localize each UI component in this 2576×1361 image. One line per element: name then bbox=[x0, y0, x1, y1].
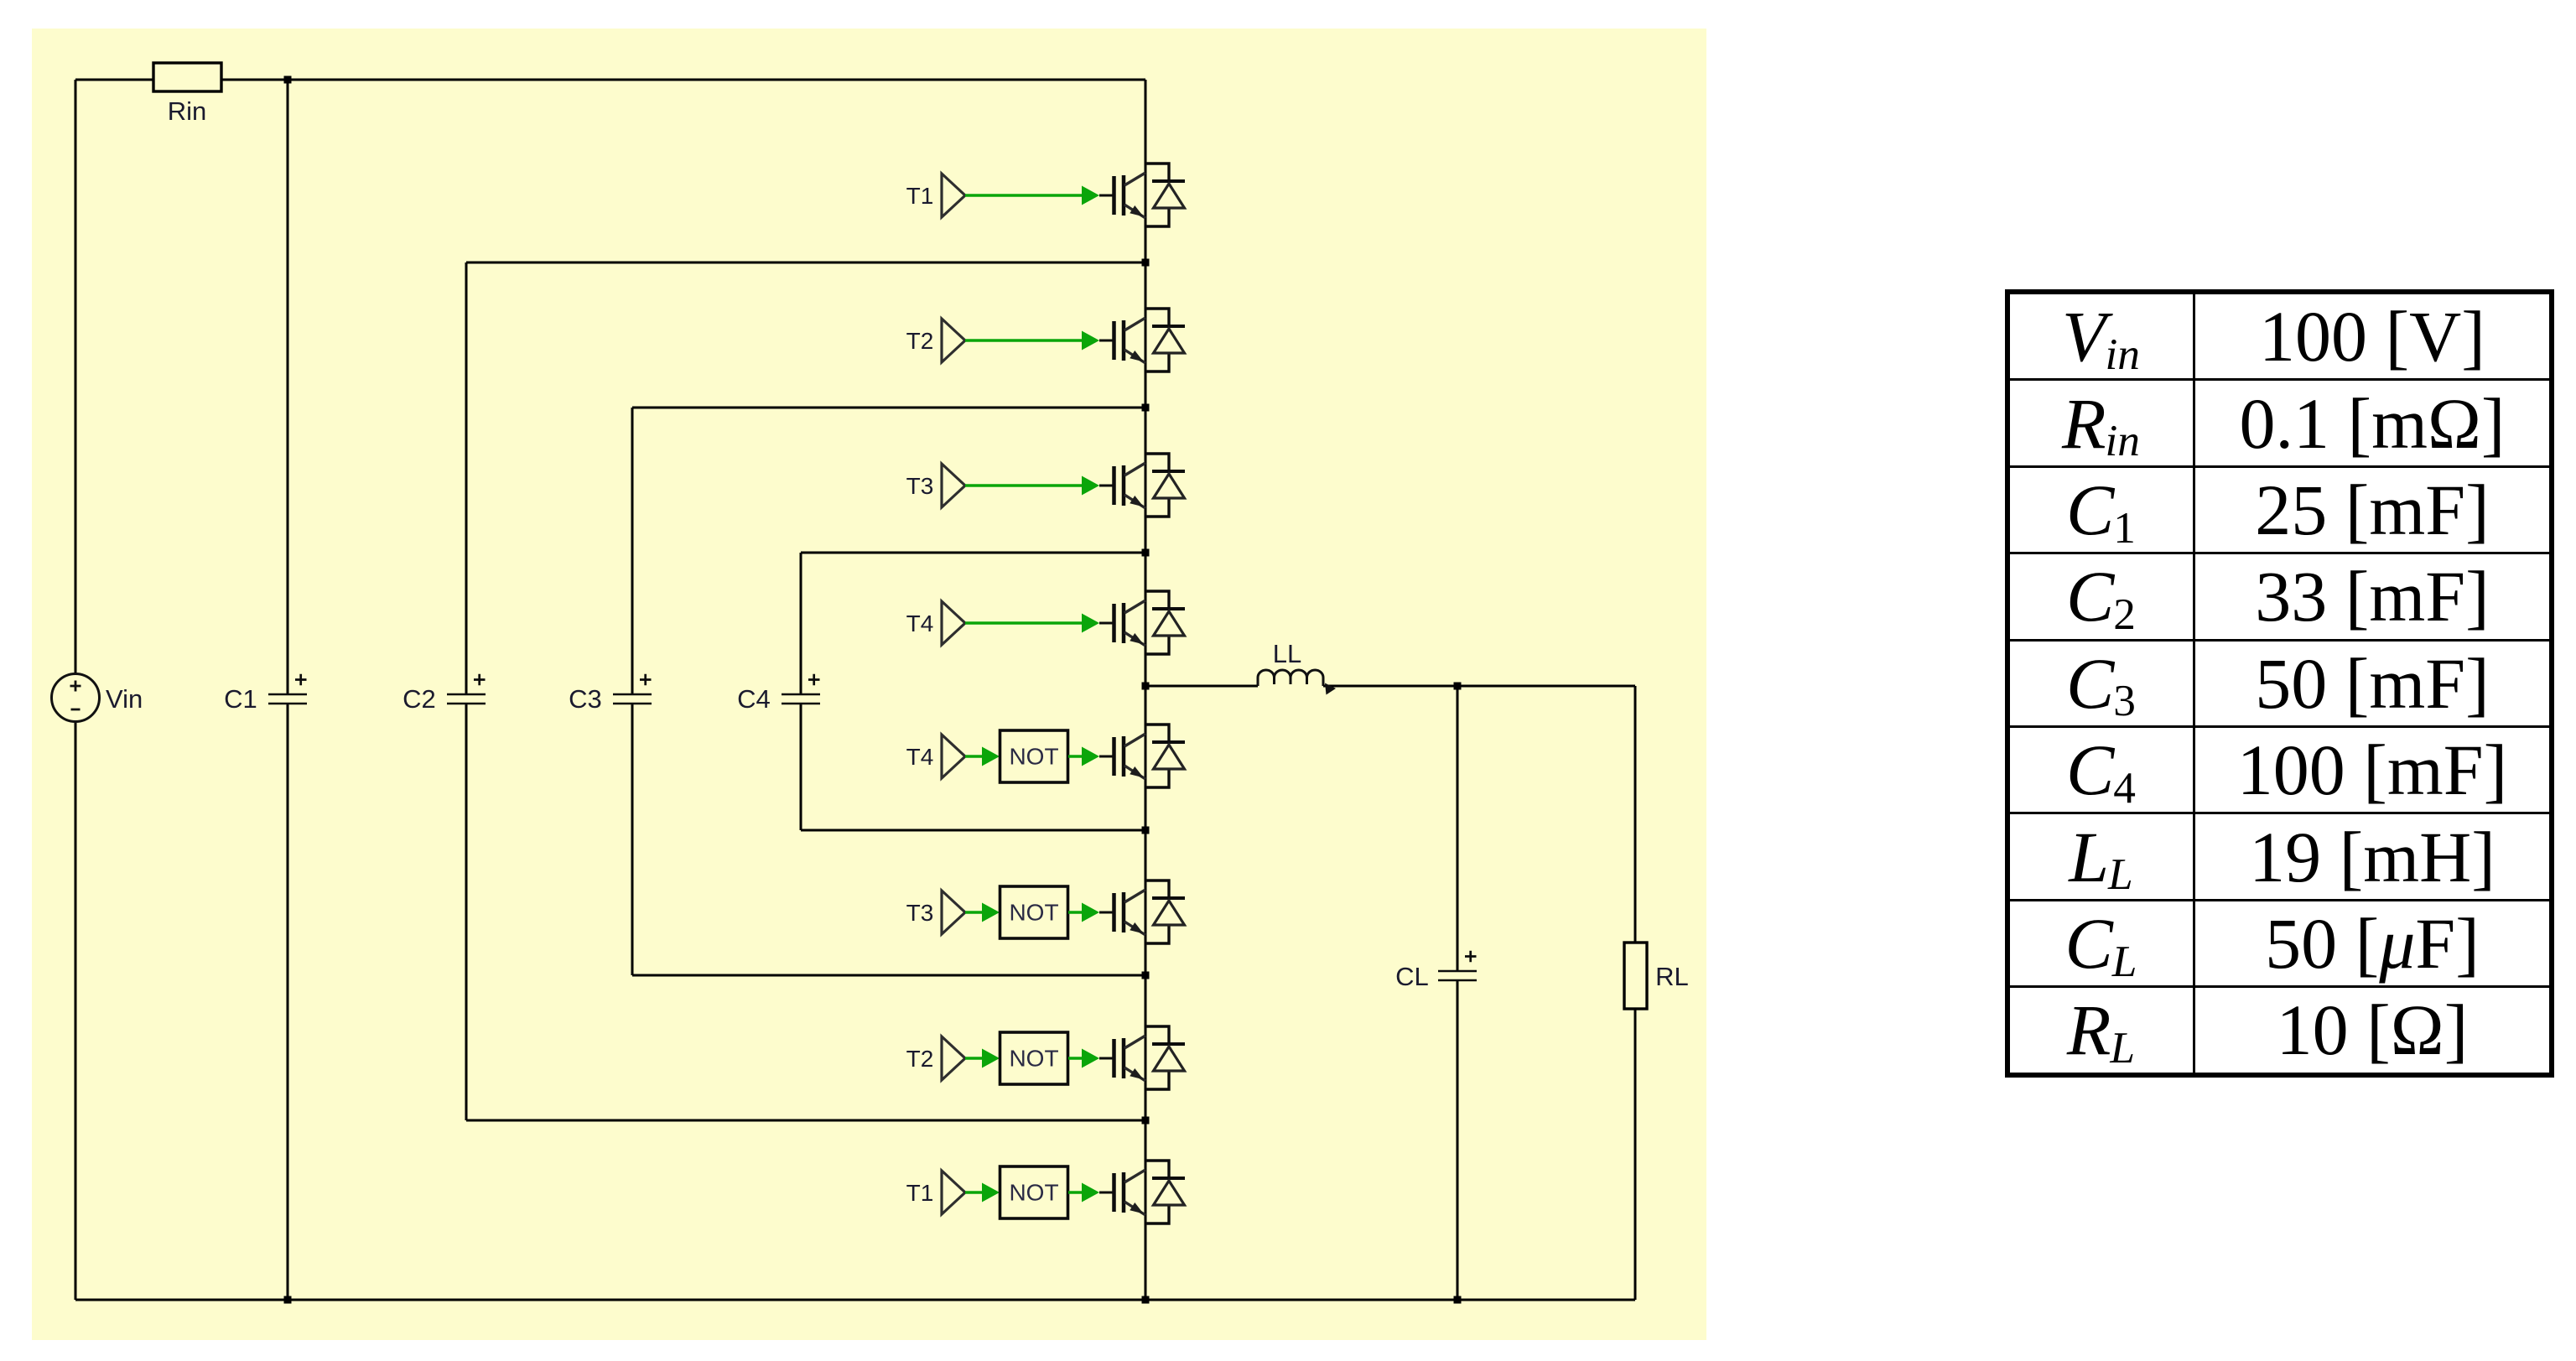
svg-text:Rin: Rin bbox=[168, 96, 207, 126]
svg-text:T3: T3 bbox=[906, 473, 934, 499]
svg-text:LL: LL bbox=[1273, 639, 1301, 668]
svg-text:RL: RL bbox=[1655, 962, 1689, 991]
svg-text:C1: C1 bbox=[224, 684, 257, 714]
svg-text:NOT: NOT bbox=[1009, 1046, 1058, 1072]
svg-text:Vin: Vin bbox=[106, 684, 143, 714]
svg-text:NOT: NOT bbox=[1009, 1180, 1058, 1206]
svg-text:T2: T2 bbox=[906, 328, 934, 354]
svg-text:T1: T1 bbox=[906, 183, 934, 209]
svg-text:T3: T3 bbox=[906, 900, 934, 926]
svg-text:NOT: NOT bbox=[1009, 900, 1058, 926]
svg-text:T1: T1 bbox=[906, 1180, 934, 1206]
svg-text:CL: CL bbox=[1395, 962, 1429, 991]
svg-text:T2: T2 bbox=[906, 1046, 934, 1072]
svg-text:T4: T4 bbox=[906, 744, 934, 770]
svg-text:C2: C2 bbox=[402, 684, 436, 714]
svg-text:C4: C4 bbox=[737, 684, 771, 714]
svg-text:T4: T4 bbox=[906, 610, 934, 636]
svg-text:NOT: NOT bbox=[1009, 744, 1058, 770]
svg-text:C3: C3 bbox=[569, 684, 602, 714]
